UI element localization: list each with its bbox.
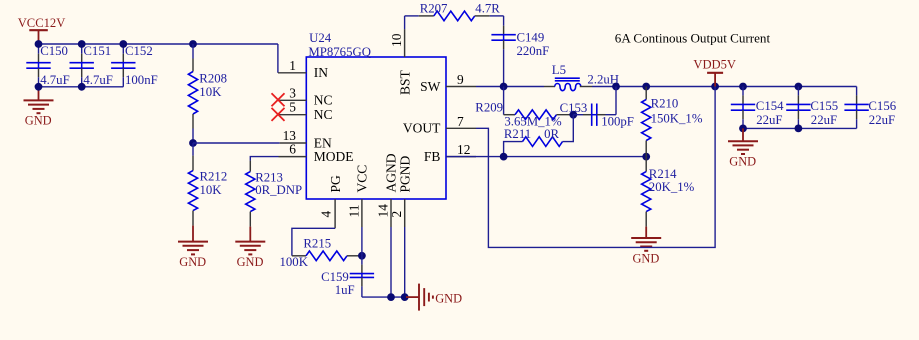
capacitor C156 xyxy=(844,87,868,129)
junction bottom wire / pin 14 xyxy=(387,293,395,301)
power port VCC12V stem xyxy=(38,30,40,44)
wire R208 top xyxy=(192,44,194,59)
wire pin 14 riser xyxy=(390,227,392,297)
junction output rail / C154 xyxy=(739,83,747,91)
pin R207 right lead xyxy=(475,15,490,17)
pin 5 NC xyxy=(279,114,306,116)
pin R212 top lead xyxy=(192,156,194,171)
svg-text:GND: GND xyxy=(729,155,756,169)
svg-text:C150: C150 xyxy=(40,44,68,58)
junction output rail / C155 xyxy=(795,83,803,91)
no-connect X pin 3 xyxy=(272,93,285,106)
pin R208 top lead xyxy=(192,59,194,72)
svg-text:U24: U24 xyxy=(309,31,332,45)
junction output rail / VDD5V / VOUT loop xyxy=(711,83,719,91)
capacitor C159 xyxy=(350,256,374,297)
svg-text:R210: R210 xyxy=(651,97,679,111)
pin 11 VCC xyxy=(361,199,363,227)
resistor R212 xyxy=(188,171,197,211)
svg-text:GND: GND xyxy=(237,255,264,269)
power port VCC12V bar xyxy=(29,29,48,31)
wire SW to R209 xyxy=(503,87,505,115)
ground GND (R213) xyxy=(235,227,265,255)
pin 2 PGND xyxy=(404,199,406,227)
pin R213 top lead xyxy=(249,161,251,172)
wire MODE net xyxy=(250,157,278,161)
junction bottom rail / C155 xyxy=(795,124,803,132)
resistor R211 xyxy=(523,137,563,147)
wire pin 2 riser xyxy=(404,227,406,297)
wire to pin 1 xyxy=(277,44,279,73)
svg-text:C154: C154 xyxy=(756,99,784,113)
ground GND (input caps) xyxy=(24,87,54,113)
svg-text:4: 4 xyxy=(319,211,334,218)
svg-text:2: 2 xyxy=(389,211,404,218)
svg-text:12: 12 xyxy=(457,142,470,157)
junction output rail / C153 branch xyxy=(612,83,620,91)
wire VCC12V rail xyxy=(39,43,278,45)
svg-text:3: 3 xyxy=(289,85,296,100)
resistor R210 xyxy=(642,100,651,141)
svg-text:C155: C155 xyxy=(810,99,838,113)
capacitor C149 xyxy=(491,16,515,87)
junction R208 / EN / R212 xyxy=(189,139,197,147)
svg-text:R212: R212 xyxy=(200,170,228,184)
resistor R208 xyxy=(188,72,197,115)
wire output cap bottom rail xyxy=(743,127,857,129)
resistor R213 xyxy=(246,172,255,212)
pin 6 MODE xyxy=(279,156,307,158)
wire AGND/PGND net xyxy=(362,296,406,298)
svg-text:10K: 10K xyxy=(200,183,223,197)
pin 4 PG xyxy=(334,199,336,228)
junction bottom rail / C151 xyxy=(78,83,86,91)
pin R214 bottom lead xyxy=(645,212,647,227)
svg-text:0R: 0R xyxy=(544,127,559,141)
pin 10 BST xyxy=(404,29,406,57)
svg-text:R215: R215 xyxy=(303,237,331,251)
svg-text:22uF: 22uF xyxy=(811,113,837,127)
ground GND (right-facing, IC returns) xyxy=(406,284,433,311)
svg-text:FB: FB xyxy=(424,149,441,164)
svg-text:100nF: 100nF xyxy=(125,73,158,87)
pin R208 bottom lead xyxy=(192,114,194,129)
svg-text:11: 11 xyxy=(346,205,361,218)
pin 12 FB xyxy=(446,156,476,158)
svg-text:100pF: 100pF xyxy=(601,114,634,128)
ground GND (R214) xyxy=(631,227,661,251)
svg-text:R211: R211 xyxy=(504,127,531,141)
resistor R209 xyxy=(515,110,557,120)
svg-text:150K_1%: 150K_1% xyxy=(651,111,703,125)
pin R215 right lead xyxy=(347,255,362,257)
pin 14 AGND xyxy=(390,199,392,227)
svg-text:4.7uF: 4.7uF xyxy=(83,73,113,87)
svg-text:MODE: MODE xyxy=(314,149,354,164)
svg-text:C151: C151 xyxy=(83,44,111,58)
svg-text:L5: L5 xyxy=(552,63,566,77)
svg-text:C153: C153 xyxy=(560,101,588,115)
svg-text:1: 1 xyxy=(289,58,296,73)
svg-text:NC: NC xyxy=(314,93,333,108)
svg-text:C152: C152 xyxy=(125,44,153,58)
svg-text:10: 10 xyxy=(389,33,404,47)
wire SW net xyxy=(476,86,544,88)
junction bottom rail / GND (output) xyxy=(739,124,747,132)
junction R209 / R211 / C153 xyxy=(569,111,577,119)
svg-text:GND: GND xyxy=(25,114,52,128)
junction FB / R210 / R214 xyxy=(642,153,650,161)
wire R212 top xyxy=(192,143,194,156)
svg-text:GND: GND xyxy=(179,255,206,269)
svg-text:20K_1%: 20K_1% xyxy=(649,180,695,194)
junction output rail / R210 xyxy=(642,83,650,91)
svg-text:SW: SW xyxy=(420,79,441,94)
wire VDD5V output rail xyxy=(592,86,857,88)
svg-text:C159: C159 xyxy=(321,270,349,284)
capacitor C153 xyxy=(573,104,616,126)
svg-text:R207: R207 xyxy=(420,1,448,15)
power port VDD5V bar xyxy=(707,72,723,74)
inductor L5 xyxy=(544,78,592,91)
wire PG net xyxy=(292,228,335,256)
capacitor C152 xyxy=(111,44,135,87)
svg-text:NC: NC xyxy=(314,107,333,122)
svg-text:C149: C149 xyxy=(517,31,545,45)
wire EN net xyxy=(193,142,280,144)
resistor R214 xyxy=(642,172,651,212)
pin R214 top lead xyxy=(645,157,647,172)
svg-text:5: 5 xyxy=(289,100,296,115)
wire R207 to C149 xyxy=(490,15,504,17)
ground GND (output caps) xyxy=(728,128,758,154)
svg-text:C156: C156 xyxy=(868,99,896,113)
junction bottom wire / pin 2 xyxy=(401,293,409,301)
svg-text:220nF: 220nF xyxy=(517,44,550,58)
junction SW / C149 / R209 xyxy=(500,83,508,91)
wire input cap bottom rail xyxy=(39,86,124,88)
no-connect X pin 5 xyxy=(272,108,285,121)
svg-text:22uF: 22uF xyxy=(756,113,782,127)
svg-text:6A Continous Output Current: 6A Continous Output Current xyxy=(615,31,771,46)
pin R209 right lead xyxy=(557,114,574,116)
capacitor C154 xyxy=(731,87,755,129)
resistor R215 xyxy=(306,251,347,261)
capacitor C155 xyxy=(786,87,810,129)
wire R208 bottom xyxy=(192,129,194,144)
pin R210 bottom lead xyxy=(645,141,647,157)
svg-text:GND: GND xyxy=(435,292,462,306)
svg-text:IN: IN xyxy=(314,65,328,80)
wire VOUT feedback loop xyxy=(476,87,715,248)
pin 13 EN xyxy=(280,142,307,144)
wire FB net xyxy=(446,156,646,158)
pin R213 bottom lead xyxy=(249,212,251,227)
junction VCC rail / C152 xyxy=(119,40,127,48)
capacitor C150 xyxy=(26,44,50,87)
svg-text:R208: R208 xyxy=(199,72,227,86)
ground GND (R212) xyxy=(178,226,208,255)
pin 7 VOUT xyxy=(446,127,476,129)
pin R207 left lead xyxy=(419,15,434,17)
svg-text:9: 9 xyxy=(457,72,464,87)
pin R209 left lead xyxy=(504,114,515,116)
svg-text:PG: PG xyxy=(328,175,343,193)
IC U24 MP8765GQ body xyxy=(306,57,446,199)
svg-text:R209: R209 xyxy=(475,100,503,114)
power port VDD5V stem xyxy=(714,73,716,87)
svg-text:VOUT: VOUT xyxy=(403,121,441,136)
pin 3 NC xyxy=(279,99,306,101)
svg-text:6: 6 xyxy=(289,142,296,157)
svg-text:4.7uF: 4.7uF xyxy=(40,73,70,87)
svg-text:VDD5V: VDD5V xyxy=(693,58,736,72)
svg-text:BST: BST xyxy=(397,69,412,95)
pin 1 IN xyxy=(278,72,306,74)
pin R210 top lead xyxy=(645,87,647,100)
svg-text:4.7R: 4.7R xyxy=(475,1,500,15)
svg-text:1uF: 1uF xyxy=(335,283,355,297)
wire FB to R211 xyxy=(504,142,523,157)
junction R215 / VCC pin / C159 xyxy=(358,252,366,260)
resistor R207 xyxy=(434,11,475,21)
svg-text:22uF: 22uF xyxy=(869,113,895,127)
pin 9 SW xyxy=(446,86,476,88)
svg-text:10K: 10K xyxy=(199,85,222,99)
wire R211 to C153 node xyxy=(563,115,574,142)
junction bottom rail / GND xyxy=(35,83,43,91)
junction FB / R211 xyxy=(500,153,508,161)
svg-text:0R_DNP: 0R_DNP xyxy=(255,183,302,197)
svg-text:100K: 100K xyxy=(280,255,309,269)
junction VCC rail / C150 xyxy=(35,40,43,48)
svg-text:PGND: PGND xyxy=(397,155,412,192)
wire VCC pin to C159 xyxy=(361,227,363,256)
wire BST top xyxy=(405,15,419,17)
svg-text:GND: GND xyxy=(632,251,659,265)
wire C153 riser to output rail xyxy=(615,87,617,115)
junction VCC rail / R208 xyxy=(189,40,197,48)
svg-text:VCC: VCC xyxy=(355,165,370,193)
pin R215 left lead xyxy=(292,255,306,257)
capacitor C151 xyxy=(70,44,94,87)
wire BST riser xyxy=(404,16,406,29)
pin R212 bottom lead xyxy=(192,211,194,226)
junction VCC rail / C151 xyxy=(78,40,86,48)
svg-text:MP8765GQ: MP8765GQ xyxy=(308,45,371,59)
svg-text:VCC12V: VCC12V xyxy=(18,16,66,30)
svg-text:7: 7 xyxy=(457,114,464,129)
